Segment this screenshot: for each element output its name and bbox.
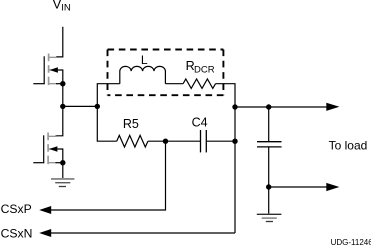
body stub xyxy=(49,148,57,150)
wire CSxP xyxy=(51,141,166,210)
body wire xyxy=(57,149,62,163)
resistor RDCR xyxy=(183,79,215,88)
inductor L xyxy=(120,66,166,83)
svg-text:CSxN: CSxN xyxy=(1,227,33,241)
wire RDCR to output rail xyxy=(216,84,236,107)
wire to load top xyxy=(235,106,327,108)
junction dot Q2 source xyxy=(60,160,65,165)
transistor Q1 (high-side NMOS) xyxy=(33,54,63,86)
body arrow xyxy=(50,67,58,73)
gate bar xyxy=(43,135,45,162)
svg-text:R5: R5 xyxy=(123,117,139,131)
source wire xyxy=(56,162,63,164)
svg-text:To load: To load xyxy=(329,138,368,152)
output rail vertical xyxy=(234,107,236,233)
body stub xyxy=(49,69,57,71)
dashed box (inductor model) xyxy=(108,50,224,96)
source stub xyxy=(49,162,57,164)
wire SW down to R5 xyxy=(97,106,116,141)
wire to load bottom xyxy=(269,186,327,188)
channel segments xyxy=(47,133,49,165)
junction dot SW right xyxy=(95,104,100,109)
wire C4 to output rail xyxy=(206,140,235,142)
gate bar xyxy=(43,56,45,83)
label RDCR xyxy=(186,59,215,75)
arrow CSxP xyxy=(39,206,51,214)
junction dot cap top xyxy=(266,104,271,109)
gate lead xyxy=(33,162,44,164)
arrow CSxN xyxy=(39,229,51,237)
node VIN label xyxy=(53,0,71,14)
wire SW to Q2 drain xyxy=(56,106,63,135)
body wire xyxy=(58,70,63,84)
wire SW horizontal xyxy=(63,105,98,107)
wire Q2 source to ground xyxy=(62,163,64,179)
svg-text:IN: IN xyxy=(61,3,71,14)
body arrow xyxy=(49,146,57,152)
drain stub xyxy=(49,56,57,58)
resistor R5 xyxy=(117,135,148,147)
ground (output cap) xyxy=(257,214,282,221)
source wire xyxy=(56,83,63,85)
capacitor C4 xyxy=(201,130,207,152)
ground (power stage) xyxy=(51,179,74,187)
wire VIN to Q1 drain xyxy=(56,27,63,57)
junction dot SW left xyxy=(60,104,65,109)
wire SW up to inductor xyxy=(97,84,120,107)
junction dot out top xyxy=(232,104,237,109)
drain stub xyxy=(49,135,57,137)
svg-text:C4: C4 xyxy=(192,116,208,130)
svg-text:L: L xyxy=(141,53,148,67)
junction dot Q1 source xyxy=(60,81,65,86)
wire R5 to C4 xyxy=(148,140,201,142)
channel segments xyxy=(48,54,50,86)
wire Q1 source to SW junction xyxy=(62,84,64,107)
junction dot R5-C4 (CSxP tap) xyxy=(163,139,168,144)
wire cap top xyxy=(268,107,270,142)
arrow to load bottom xyxy=(326,183,339,191)
svg-text:DCR: DCR xyxy=(194,64,215,75)
gate lead xyxy=(33,83,45,85)
source stub xyxy=(49,83,57,85)
wire CSxN xyxy=(51,232,236,234)
wire cap bottom xyxy=(268,147,270,214)
svg-text:CSxP: CSxP xyxy=(1,202,32,216)
junction dot C4-out xyxy=(232,139,237,144)
svg-text:UDG-11246: UDG-11246 xyxy=(331,238,371,247)
capacitor Cout xyxy=(257,142,282,147)
wire L to RDCR xyxy=(165,83,183,85)
transistor Q2 (low-side NMOS) xyxy=(33,133,63,165)
arrow to load top xyxy=(326,103,339,111)
junction dot cap bottom xyxy=(266,184,271,189)
